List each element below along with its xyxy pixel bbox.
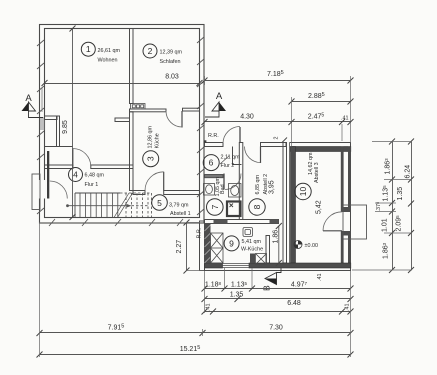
- Flur2 shaft L-wall: [233, 147, 242, 165]
- room 10 right wall outer dark line upper: [348, 147, 351, 208]
- Flur2 entrance door leaf: [239, 127, 241, 143]
- svg-text:3: 3: [146, 156, 156, 161]
- entrance outside landing: [32, 174, 40, 210]
- Bad door arc: [225, 174, 241, 190]
- svg-text:12,86 qm: 12,86 qm: [148, 126, 154, 149]
- svg-text:.41: .41: [345, 304, 351, 312]
- svg-text:.41: .41: [206, 304, 212, 312]
- room 10 top wall dark band: [291, 147, 351, 152]
- extension line x342: [341, 124, 343, 141]
- svg-text:3,79 qm: 3,79 qm: [169, 203, 189, 209]
- wall end cap dot: [204, 140, 207, 143]
- room 9 circle: [224, 236, 239, 251]
- room 10 door jamb block bottom: [341, 231, 351, 236]
- right vertical dim chain A: [392, 142, 394, 271]
- kitchen wall stub: [115, 118, 130, 122]
- room 10 outer face line of left wall: [289, 143, 291, 264]
- dim 2.88: [292, 101, 351, 103]
- right chain connectors: [352, 142, 412, 271]
- svg-text:15.215: 15.215: [180, 345, 201, 353]
- wall kitchen/Abstell1 right piece: [164, 191, 200, 195]
- room 10 door arc: [323, 212, 342, 231]
- svg-text:2.27: 2.27: [176, 240, 183, 254]
- svg-text:1: 1: [86, 44, 91, 54]
- room 10 circle: [295, 183, 311, 199]
- washbasin in Bad: [204, 184, 215, 196]
- radiator below room2 wall: [131, 104, 146, 110]
- svg-text:±0.00: ±0.00: [305, 243, 318, 249]
- Abstell2 right wall: [283, 143, 287, 264]
- lower-left column wall (continuation of left-block right wall): [200, 221, 205, 271]
- wall Wohnen/Flur1 right part: [91, 165, 133, 169]
- extension line x291: [291, 97, 293, 147]
- svg-text:8: 8: [252, 204, 262, 209]
- dim row 4.30 / 2.47 / .41: [205, 121, 351, 123]
- svg-text:7.30: 7.30: [269, 325, 283, 332]
- left block outer wall: [40, 25, 205, 224]
- wall pier shading left wall: [40, 117, 45, 130]
- left block inner wall line: [45, 29, 200, 218]
- svg-text:Bad: Bad: [220, 184, 226, 194]
- wall kitchen/Abstell1 left piece: [133, 191, 145, 195]
- room 10 left wall dark band: [291, 147, 296, 264]
- right vertical dim chain B: [411, 142, 413, 271]
- stair dashed treads upper flight: [126, 193, 152, 218]
- svg-text:9.85: 9.85: [62, 120, 69, 134]
- svg-text:3,95: 3,95: [269, 180, 276, 194]
- corridor top wall (below rooms 7 and 8): [205, 220, 279, 224]
- W-Kueche right wall: [266, 236, 270, 264]
- section marker B bottom: [277, 268, 282, 273]
- bottom dim row 1: [205, 288, 351, 290]
- Flur2 entrance door arc: [223, 126, 240, 143]
- door Flur1-Wohnen arc: [73, 149, 91, 167]
- svg-text:R.R.: R.R.: [208, 133, 219, 139]
- room 10 right wall outer dark line lower: [348, 236, 351, 264]
- shower dark box: [227, 202, 241, 217]
- svg-text:Abstell 3: Abstell 3: [314, 162, 320, 183]
- room 10 outer thin boundary: [205, 143, 351, 271]
- bottom dim row 3: [205, 311, 351, 313]
- Flur2 top wall left piece: [205, 143, 224, 147]
- extension stubs below bottom wall windows: [225, 268, 253, 289]
- svg-text:Flur 2: Flur 2: [221, 163, 235, 169]
- niche bottom line: [45, 146, 73, 148]
- right extension line bottom: [350, 271, 352, 357]
- door Flur1-Wohnen leaf: [72, 149, 74, 167]
- left extension line: [39, 222, 41, 357]
- wall stub right of room2 door: [183, 108, 200, 111]
- svg-text:A: A: [216, 91, 223, 102]
- entrance opening in left wall: [39, 180, 46, 199]
- bottom dim row 2: [205, 298, 351, 300]
- svg-text:1.86: 1.86: [272, 230, 279, 244]
- dark block left of stove: [250, 254, 255, 264]
- extension line right x350: [350, 76, 352, 143]
- WC in Bad: [229, 184, 242, 198]
- svg-text:2: 2: [148, 46, 153, 56]
- svg-text:6,85 qm: 6,85 qm: [255, 175, 261, 195]
- svg-text:Schlafen: Schlafen: [160, 59, 181, 65]
- room 2 circle: [143, 44, 157, 58]
- sink in W-Kueche: [243, 228, 253, 237]
- kitchen counter with X cells: [211, 233, 224, 263]
- extension line x204 above: [204, 76, 206, 85]
- entrance pier dark bar: [47, 151, 49, 199]
- room 5 circle: [152, 195, 168, 211]
- stair walk line dashed continuation: [132, 205, 149, 207]
- x202 extension row4: [202, 329, 204, 336]
- door room2-kitchen arc: [166, 111, 182, 127]
- bottom wall dark band with window gaps: [205, 263, 223, 268]
- svg-text:5,42: 5,42: [316, 200, 323, 214]
- entrance door arc: [50, 181, 68, 199]
- room 10 door jamb block top: [341, 207, 351, 212]
- Abstell2 entrance door leaf: [260, 147, 262, 164]
- Bad top wall: [205, 175, 224, 178]
- wall Flur2/Abstell2 vertical: [239, 143, 243, 220]
- svg-text:5,41 qm: 5,41 qm: [242, 239, 262, 245]
- window 1 in bottom wall: [223, 264, 250, 268]
- svg-text:.41: .41: [341, 116, 349, 122]
- svg-text:R.R.: R.R.: [197, 228, 203, 239]
- niche stub wall: [45, 116, 58, 120]
- niche vertical wall: [57, 116, 60, 147]
- stair break line: [114, 193, 133, 218]
- stair left edge: [74, 193, 76, 218]
- svg-text:4: 4: [73, 170, 78, 180]
- door room2-kitchen leaf: [181, 111, 183, 128]
- room 10 right wall inner dark line lower: [341, 236, 344, 264]
- svg-text:26,61 qm: 26,61 qm: [98, 48, 121, 54]
- room 10 right wall inner dark line upper: [341, 147, 344, 208]
- outside landing right: [343, 205, 367, 239]
- dim 1.86 corridor: [278, 226, 280, 263]
- svg-text:10: 10: [298, 187, 308, 197]
- room 6 circle: [203, 155, 219, 171]
- room 1 circle: [81, 42, 95, 56]
- insulation hatch ticks on exterior walls: [37, 37, 204, 226]
- svg-text:8.03: 8.03: [165, 74, 179, 81]
- svg-text:7: 7: [210, 204, 220, 209]
- Flur2 top wall right piece: [261, 143, 287, 147]
- svg-text:5: 5: [157, 198, 162, 208]
- svg-text:.41: .41: [317, 274, 323, 282]
- svg-text:Wohnen: Wohnen: [98, 58, 118, 64]
- interior dim 9.85 line: [72, 29, 74, 218]
- room 7 circle: [207, 199, 224, 216]
- dark hatched wall lining left of kitchen counter: [205, 224, 211, 264]
- Abstell2 entrance door arc: [245, 147, 261, 163]
- door kitchen arc: [145, 172, 164, 191]
- svg-text:B: B: [262, 285, 272, 291]
- svg-text:1.35: 1.35: [397, 187, 404, 201]
- svg-text:6,48 qm: 6,48 qm: [85, 173, 105, 179]
- svg-text:Küche: Küche: [155, 133, 161, 148]
- interior dim 8.03 line: [45, 83, 200, 85]
- svg-text:4.30: 4.30: [240, 114, 254, 121]
- room 3 circle: [143, 151, 159, 167]
- window glazing line left wall: [41, 88, 43, 112]
- svg-text:2: 2: [274, 137, 280, 140]
- leader line room 6 label: [220, 156, 229, 164]
- svg-text:12,39 qm: 12,39 qm: [160, 50, 183, 56]
- stair top edge: [75, 192, 120, 194]
- stove box with X: [256, 254, 267, 265]
- svg-text:9: 9: [229, 239, 234, 249]
- stair walk line arrow: [127, 204, 132, 208]
- stair walk line with start dot: [66, 204, 69, 207]
- bottom dim row 5: [40, 354, 351, 356]
- dim top 7.18: [205, 80, 351, 82]
- level marker circle: [294, 241, 302, 249]
- room 4 circle: [69, 168, 83, 182]
- svg-text:Flur 1: Flur 1: [85, 182, 99, 188]
- room 8 circle: [249, 199, 265, 215]
- door kitchen leaf: [163, 172, 165, 191]
- wall Wohnen/Flur1 left part: [45, 165, 73, 169]
- svg-text:6: 6: [209, 158, 214, 168]
- svg-text:W-Küche: W-Küche: [241, 247, 263, 253]
- wall between room 2 and kitchen: [130, 109, 167, 112]
- svg-text:2,11 qm: 2,11 qm: [221, 155, 241, 161]
- svg-text:6.48: 6.48: [287, 300, 301, 307]
- wall between room 1 and room 2: [130, 29, 134, 104]
- svg-text:Abstell 1: Abstell 1: [170, 211, 191, 217]
- room 10 door leaf: [323, 230, 342, 232]
- svg-text:1.01: 1.01: [382, 218, 389, 232]
- stair treads: [80, 193, 118, 218]
- bottom dim row 4: [40, 332, 351, 334]
- Bad door leaf: [223, 174, 225, 190]
- x204 extension bottom: [204, 271, 206, 313]
- dim 2.27 left of lower block: [186, 223, 188, 271]
- svg-text:1.35: 1.35: [230, 292, 244, 299]
- kitchen left wall: [130, 112, 134, 191]
- svg-text:6.24: 6.24: [405, 165, 412, 179]
